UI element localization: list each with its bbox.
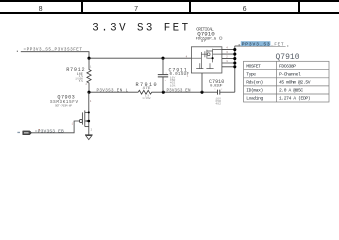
svg-text:8: 8 <box>39 6 43 14</box>
svg-text:ID(max): ID(max) <box>246 88 263 94</box>
svg-text:Rds(on): Rds(on) <box>246 80 263 86</box>
svg-text:P3V3S3_EN_L: P3V3S3_EN_L <box>97 89 129 93</box>
svg-text:7: 7 <box>134 6 138 14</box>
svg-text:402: 402 <box>215 103 221 106</box>
svg-text:10%: 10% <box>170 84 176 87</box>
svg-text:5%: 5% <box>79 80 83 83</box>
svg-text:3.3V S3 FET: 3.3V S3 FET <box>92 23 190 35</box>
svg-text:Type: Type <box>246 71 256 77</box>
svg-text:47E: 47E <box>143 87 152 91</box>
svg-text:1.274 A (EDP): 1.274 A (EDP) <box>279 96 311 102</box>
svg-text:6: 6 <box>243 6 247 14</box>
svg-text:45 mOhm @2.5V: 45 mOhm @2.5V <box>279 80 311 86</box>
svg-text:Q7903: Q7903 <box>57 94 75 100</box>
svg-text:Q7910: Q7910 <box>276 53 300 62</box>
svg-text:Loading: Loading <box>246 96 263 102</box>
svg-text:MOSFET: MOSFET <box>246 63 261 69</box>
svg-text:P3V3S3_EN: P3V3S3_EN <box>167 90 191 94</box>
svg-text:1/16W: 1/16W <box>142 96 150 100</box>
svg-text:P-Channel: P-Channel <box>279 71 301 77</box>
svg-text:SOT-763M-8P: SOT-763M-8P <box>55 104 72 107</box>
svg-text:FDC638P: FDC638P <box>279 63 296 69</box>
svg-text:2.0 A @85C: 2.0 A @85C <box>279 88 303 94</box>
svg-text:8P: 8P <box>201 39 206 43</box>
svg-text:FDC638P_G: FDC638P_G <box>196 37 217 41</box>
